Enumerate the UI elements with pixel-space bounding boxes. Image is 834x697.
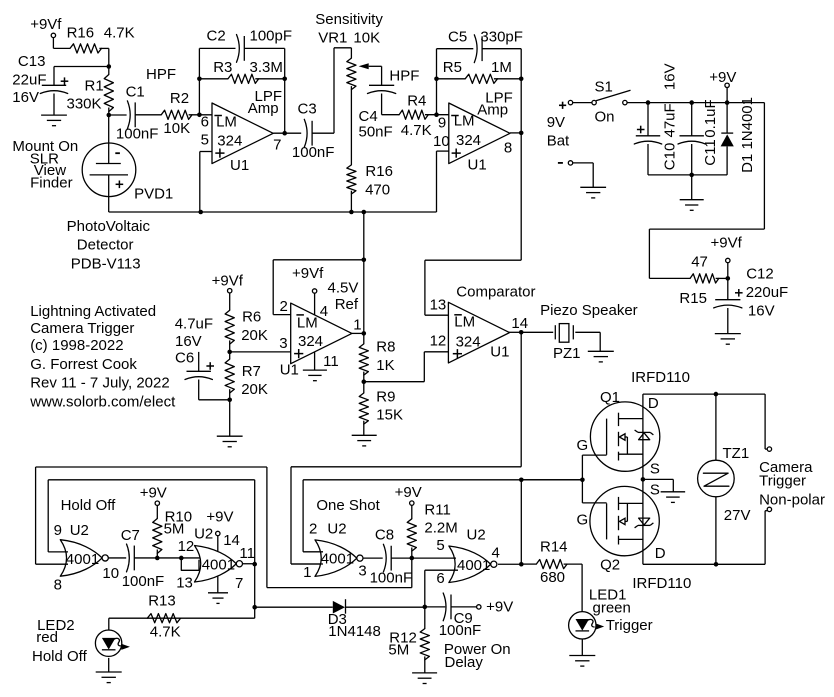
- svg-text:+9Vf: +9Vf: [30, 16, 62, 33]
- svg-text:R2: R2: [170, 90, 189, 107]
- svg-text:680: 680: [540, 569, 565, 586]
- svg-text:G: G: [577, 437, 589, 454]
- svg-text:4: 4: [320, 303, 328, 320]
- svg-text:+9V: +9V: [395, 484, 422, 501]
- svg-text:U2: U2: [327, 520, 346, 537]
- svg-text:2.2M: 2.2M: [424, 519, 457, 536]
- svg-text:100nF: 100nF: [439, 622, 482, 639]
- svg-text:Amp: Amp: [477, 102, 508, 119]
- svg-text:4001: 4001: [66, 551, 99, 568]
- svg-text:4.7K: 4.7K: [104, 24, 135, 41]
- svg-text:14: 14: [223, 532, 240, 549]
- svg-text:7: 7: [235, 575, 243, 592]
- svg-text:PZ1: PZ1: [553, 345, 581, 362]
- svg-text:Amp: Amp: [248, 100, 279, 117]
- svg-text:R4: R4: [407, 93, 426, 110]
- svg-text:16V: 16V: [748, 302, 775, 319]
- svg-text:Detector: Detector: [77, 237, 134, 254]
- svg-text:HPF: HPF: [146, 66, 176, 83]
- svg-text:C1: C1: [126, 84, 145, 101]
- svg-text:10K: 10K: [353, 30, 380, 47]
- svg-text:R16: R16: [67, 24, 95, 41]
- svg-text:Trigger: Trigger: [759, 472, 806, 489]
- svg-text:R15: R15: [679, 290, 707, 307]
- svg-text:+9V: +9V: [709, 69, 736, 86]
- svg-text:PDB-V113: PDB-V113: [71, 255, 141, 272]
- svg-text:15K: 15K: [376, 407, 403, 424]
- svg-text:10K: 10K: [163, 120, 190, 137]
- svg-text:9V: 9V: [547, 114, 565, 131]
- svg-text:4: 4: [492, 544, 500, 561]
- svg-text:R11: R11: [424, 502, 450, 519]
- svg-text:C3: C3: [298, 101, 317, 118]
- svg-text:11: 11: [239, 545, 255, 562]
- svg-text:Hold Off: Hold Off: [61, 497, 117, 514]
- svg-text:R8: R8: [376, 339, 395, 356]
- svg-text:330K: 330K: [67, 96, 102, 113]
- svg-text:47: 47: [691, 253, 708, 270]
- svg-text:U1: U1: [490, 343, 509, 360]
- svg-text:12: 12: [178, 538, 195, 555]
- svg-text:4.7K: 4.7K: [150, 623, 181, 640]
- svg-text:16V: 16V: [12, 89, 39, 106]
- svg-text:4.7K: 4.7K: [401, 122, 432, 139]
- svg-text:U2: U2: [467, 526, 486, 543]
- svg-text:LM: LM: [454, 113, 475, 130]
- svg-text:www.solorb.com/elect: www.solorb.com/elect: [29, 393, 176, 410]
- svg-text:U1: U1: [280, 361, 299, 378]
- svg-text:324: 324: [456, 132, 481, 149]
- svg-text:U2: U2: [70, 522, 89, 539]
- svg-text:4001: 4001: [457, 557, 490, 574]
- svg-text:27V: 27V: [724, 507, 751, 524]
- svg-text:324: 324: [456, 333, 481, 350]
- svg-text:100pF: 100pF: [250, 28, 293, 45]
- svg-text:R16: R16: [365, 163, 393, 180]
- svg-text:+9V: +9V: [140, 485, 167, 502]
- svg-text:Hold Off: Hold Off: [32, 648, 88, 665]
- svg-text:1: 1: [353, 317, 361, 334]
- svg-text:PhotoVoltaic: PhotoVoltaic: [67, 218, 151, 235]
- svg-text:Bat: Bat: [547, 132, 570, 149]
- svg-text:1K: 1K: [376, 357, 394, 374]
- svg-text:13: 13: [176, 574, 193, 591]
- svg-text:3.3M: 3.3M: [250, 59, 283, 76]
- svg-text:Trigger: Trigger: [606, 617, 653, 634]
- svg-text:Rev 11 - 7 July, 2022: Rev 11 - 7 July, 2022: [30, 374, 170, 391]
- svg-text:Sensitivity: Sensitivity: [315, 11, 383, 28]
- svg-text:S: S: [650, 460, 660, 477]
- svg-text:S: S: [650, 481, 660, 498]
- svg-text:One Shot: One Shot: [316, 497, 380, 514]
- svg-text:Finder: Finder: [30, 175, 73, 192]
- svg-text:100nF: 100nF: [292, 144, 335, 161]
- svg-text:U1: U1: [468, 157, 487, 174]
- svg-text:3: 3: [279, 335, 287, 352]
- svg-text:C8: C8: [375, 527, 394, 544]
- svg-text:+9Vf: +9Vf: [711, 234, 743, 251]
- svg-text:Q1: Q1: [600, 389, 620, 406]
- svg-text:S1: S1: [595, 79, 613, 96]
- svg-text:R14: R14: [540, 539, 568, 556]
- svg-text:C6: C6: [175, 350, 194, 367]
- svg-text:TZ1: TZ1: [723, 445, 750, 462]
- svg-text:20K: 20K: [241, 327, 268, 344]
- svg-text:Comparator: Comparator: [456, 284, 535, 301]
- svg-text:20K: 20K: [241, 381, 268, 398]
- svg-text:7: 7: [273, 136, 281, 153]
- svg-text:C12: C12: [746, 266, 774, 283]
- svg-text:C11: C11: [702, 139, 719, 165]
- svg-text:50nF: 50nF: [359, 124, 393, 141]
- svg-text:11: 11: [323, 353, 339, 370]
- svg-text:R6: R6: [242, 308, 261, 325]
- svg-text:8: 8: [504, 139, 512, 156]
- svg-text:10: 10: [433, 133, 450, 150]
- svg-text:0.1uF: 0.1uF: [702, 99, 719, 137]
- svg-text:+9V: +9V: [486, 599, 513, 616]
- svg-text:Q2: Q2: [600, 556, 620, 573]
- svg-text:IRFD110: IRFD110: [631, 369, 690, 386]
- svg-text:LM: LM: [454, 314, 475, 331]
- svg-text:16V: 16V: [662, 63, 679, 90]
- svg-text:1M: 1M: [491, 59, 512, 76]
- svg-text:(c) 1998-2022: (c) 1998-2022: [30, 337, 123, 354]
- svg-text:R7: R7: [242, 363, 261, 380]
- svg-text:13: 13: [430, 296, 447, 313]
- svg-text:9: 9: [54, 522, 62, 539]
- svg-text:LM: LM: [297, 315, 318, 332]
- svg-text:16V: 16V: [175, 333, 202, 350]
- svg-text:VR1: VR1: [318, 30, 347, 47]
- svg-text:4001: 4001: [321, 550, 354, 567]
- svg-text:470: 470: [365, 182, 390, 199]
- svg-text:22uF: 22uF: [12, 72, 46, 89]
- svg-text:6: 6: [201, 113, 209, 130]
- svg-text:Delay: Delay: [445, 654, 484, 671]
- svg-text:12: 12: [430, 333, 447, 350]
- svg-text:G. Forrest Cook: G. Forrest Cook: [30, 356, 137, 373]
- svg-text:Lightning Activated: Lightning Activated: [30, 303, 156, 320]
- svg-text:R5: R5: [443, 59, 462, 76]
- svg-text:Camera Trigger: Camera Trigger: [30, 320, 134, 337]
- svg-text:C13: C13: [18, 53, 46, 70]
- svg-text:4.7uF: 4.7uF: [175, 316, 213, 333]
- svg-text:5M: 5M: [388, 641, 409, 658]
- svg-text:R13: R13: [148, 593, 176, 610]
- svg-text:+9Vf: +9Vf: [292, 265, 324, 282]
- svg-text:red: red: [36, 629, 58, 646]
- svg-text:U2: U2: [194, 525, 213, 542]
- svg-text:R9: R9: [376, 388, 395, 405]
- svg-text:green: green: [593, 599, 631, 616]
- svg-text:Piezo Speaker: Piezo Speaker: [540, 302, 638, 319]
- svg-text:3: 3: [358, 563, 366, 580]
- svg-text:Non-polar: Non-polar: [759, 491, 825, 508]
- svg-text:1: 1: [303, 564, 311, 581]
- svg-text:Ref: Ref: [335, 296, 359, 313]
- svg-text:5: 5: [201, 131, 209, 148]
- svg-text:+9Vf: +9Vf: [212, 273, 244, 290]
- svg-text:324: 324: [298, 333, 323, 350]
- svg-text:C10: C10: [662, 143, 679, 171]
- svg-text:100nF: 100nF: [116, 125, 159, 142]
- svg-text:C7: C7: [121, 527, 140, 544]
- svg-text:PVD1: PVD1: [134, 186, 173, 203]
- svg-text:C5: C5: [448, 29, 467, 46]
- svg-text:6: 6: [436, 570, 444, 587]
- svg-text:R3: R3: [213, 59, 232, 76]
- svg-text:C2: C2: [207, 28, 226, 45]
- svg-text:1N4148: 1N4148: [328, 623, 381, 640]
- svg-text:47uF: 47uF: [662, 103, 679, 137]
- svg-text:U1: U1: [230, 157, 249, 174]
- svg-text:R1: R1: [85, 78, 104, 95]
- svg-text:D: D: [655, 545, 666, 562]
- svg-text:324: 324: [217, 132, 242, 149]
- svg-text:D: D: [648, 395, 659, 412]
- svg-text:+9V: +9V: [206, 508, 233, 525]
- svg-text:LM: LM: [216, 113, 237, 130]
- svg-text:C4: C4: [359, 108, 378, 125]
- svg-text:8: 8: [54, 576, 62, 593]
- svg-text:5: 5: [436, 537, 444, 554]
- svg-text:On: On: [595, 108, 615, 125]
- svg-text:100nF: 100nF: [370, 570, 413, 587]
- svg-text:5M: 5M: [164, 520, 185, 537]
- svg-text:100nF: 100nF: [122, 573, 165, 590]
- svg-text:10: 10: [102, 565, 119, 582]
- svg-text:IRFD110: IRFD110: [632, 575, 691, 592]
- svg-text:2: 2: [309, 520, 317, 537]
- svg-text:HPF: HPF: [389, 67, 419, 84]
- svg-text:330pF: 330pF: [480, 29, 523, 46]
- svg-text:220uF: 220uF: [746, 284, 789, 301]
- svg-text:4001: 4001: [202, 556, 235, 573]
- svg-text:2: 2: [280, 298, 288, 315]
- svg-text:D1 1N4001: D1 1N4001: [739, 97, 756, 173]
- svg-text:4.5V: 4.5V: [328, 280, 359, 297]
- svg-text:G: G: [577, 512, 589, 529]
- svg-text:9: 9: [438, 114, 446, 131]
- svg-text:14: 14: [511, 315, 528, 332]
